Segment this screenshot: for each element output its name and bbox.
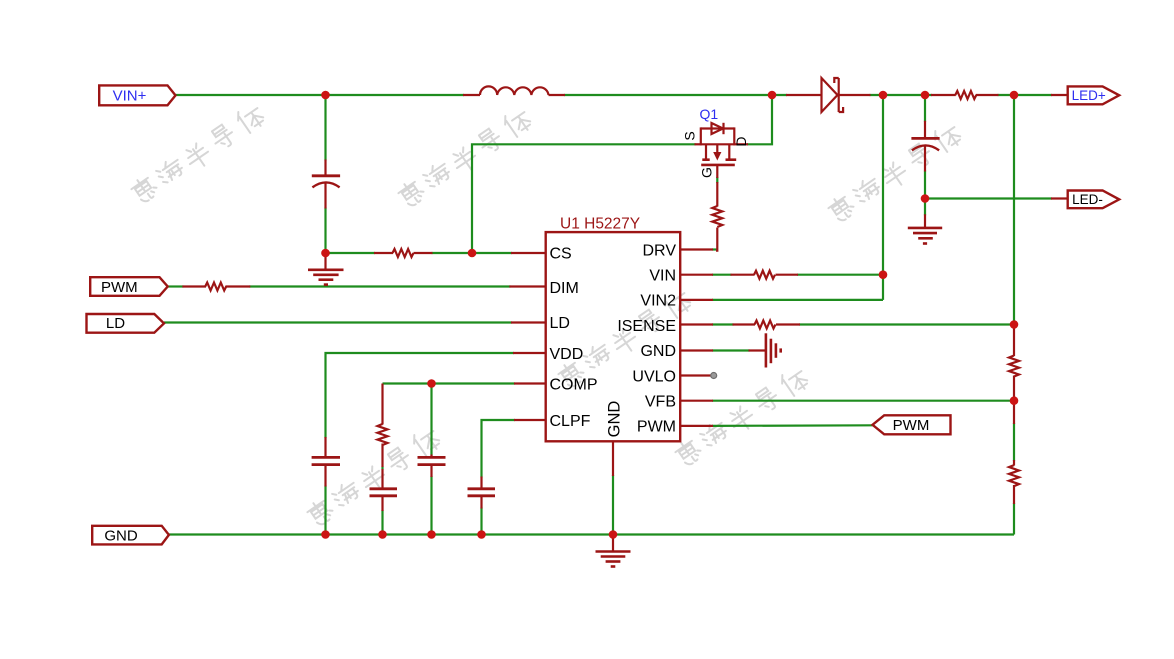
node junction C2 top — [921, 91, 930, 100]
wire inductor leads — [463, 94, 480, 96]
watermark 2 — [396, 105, 534, 211]
node junction diode cathode — [879, 91, 888, 100]
wire C1 bottom branch — [324, 208, 326, 254]
svg-text:VDD: VDD — [550, 346, 584, 363]
wire COMP branchA upper lead — [381, 384, 383, 425]
capacitor C3 VDD — [312, 457, 340, 464]
wire IC GND pin to bus — [612, 475, 614, 535]
resistor R5 VIN — [754, 271, 775, 279]
wire VDD cap bottom lead — [324, 465, 326, 487]
wire top resistor leads — [931, 94, 956, 96]
wire Q1 gate lead upper — [716, 165, 718, 178]
wire right column x1014 upper — [1013, 95, 1015, 325]
svg-text:VIN: VIN — [649, 268, 676, 285]
wire VDD pin red stub — [513, 352, 546, 354]
wire DRV green dash — [712, 248, 717, 250]
wire GND pin green — [712, 349, 750, 351]
wire right column red leads — [1013, 325, 1015, 357]
watermark 4 — [305, 424, 443, 530]
wire VIN+ rail left — [176, 94, 465, 96]
wire CLPF pin red stub — [514, 419, 546, 421]
node PWM flag right — [873, 415, 951, 434]
wire Q1 gate lead lower — [716, 182, 718, 207]
svg-text:G: G — [699, 167, 715, 178]
wire C1 top branch — [324, 95, 326, 161]
ground G1 — [308, 252, 344, 285]
wire VIN pin red stub — [680, 274, 713, 276]
node VIN+ flag — [99, 85, 175, 105]
wire node CS left — [326, 252, 376, 254]
wire ISENSE green left — [712, 323, 734, 325]
wire PWM pin red stub — [680, 425, 713, 427]
op-amp U1 H5227Y body — [546, 216, 681, 442]
svg-text:S: S — [682, 131, 698, 140]
svg-text:LED+: LED+ — [1072, 88, 1106, 103]
wire GND pin to ground — [749, 349, 766, 351]
svg-text:LD: LD — [550, 315, 570, 332]
wire LED- flag stub — [1051, 197, 1068, 199]
node junction LED+ column — [1010, 91, 1019, 100]
node UVLO no-connect dot — [711, 373, 717, 379]
wire VIN2 pin red stub — [680, 299, 713, 301]
watermark 6 — [673, 364, 811, 470]
resistor R8 lower right (vertical) — [1009, 465, 1019, 486]
resistor R7 upper right (vertical) — [1009, 356, 1019, 377]
svg-text:DRV: DRV — [643, 242, 677, 259]
svg-text:ISENSE: ISENSE — [617, 318, 676, 335]
node LD flag — [87, 314, 165, 333]
wire VIN pin green — [712, 274, 732, 276]
inductor L1 — [480, 86, 548, 95]
svg-text:GND: GND — [606, 401, 624, 438]
wire VIN resistor right lead — [776, 274, 799, 276]
ground G4 rotated — [766, 333, 781, 367]
wire VFB run — [712, 400, 1014, 402]
wire CLPF cap to bus — [480, 508, 482, 535]
wire VFB pin red stub — [680, 400, 713, 402]
wire COMP branchA mid lead — [381, 444, 383, 468]
node junction LED- — [921, 194, 930, 203]
wire node CS right — [432, 252, 473, 254]
watermark 3 — [826, 120, 964, 226]
wire ISENSE pin red stub — [680, 323, 713, 325]
svg-text:D: D — [733, 136, 749, 146]
wire PWM flag stub — [168, 285, 184, 287]
resistor R1 top — [955, 91, 976, 99]
watermark 1 — [129, 101, 267, 207]
wire LD pin red stub — [511, 321, 546, 323]
resistor R2 CS — [393, 249, 414, 257]
node junction VFB — [1010, 396, 1019, 405]
wire COMP cap branch — [430, 384, 432, 456]
wire Q1 source red stub — [695, 143, 701, 145]
ground G3 — [596, 534, 631, 567]
wire VIN+ rail mid — [564, 94, 787, 96]
wire VIN resistor left lead — [731, 274, 755, 276]
wire UVLO pin stub — [680, 374, 711, 376]
capacitor C6 CLPF — [468, 489, 496, 496]
svg-text:PWM: PWM — [101, 279, 138, 296]
wire VIN+ rail right of diode — [870, 94, 933, 96]
wire Q1 gate green dash — [716, 177, 718, 183]
node junction ISENSE — [1010, 320, 1019, 329]
wire LD run — [164, 321, 512, 323]
node GND flag — [92, 526, 169, 545]
capacitor C4 COMP branchB — [418, 457, 446, 464]
wire C2 top red lead — [924, 121, 926, 139]
wire IC GND bottom stub — [612, 441, 614, 476]
svg-text:VIN2: VIN2 — [640, 293, 676, 310]
wire COMP cap to bus — [430, 476, 432, 535]
svg-text:COMP: COMP — [550, 376, 598, 393]
wire ISENSE run right — [799, 323, 1014, 325]
wire PWM pin run — [712, 424, 873, 427]
node LED+ flag — [1068, 86, 1120, 104]
capacitor C2 — [911, 138, 939, 150]
wire LED- ground stub — [924, 199, 926, 216]
wire LED- run — [925, 197, 1052, 199]
wire COMP RC green dash — [381, 467, 383, 470]
svg-text:DIM: DIM — [550, 280, 579, 297]
svg-text:CLPF: CLPF — [550, 413, 591, 430]
wire PWM resistor leads — [182, 285, 206, 287]
svg-text:GND: GND — [640, 343, 676, 360]
wire right column lower — [1013, 503, 1015, 535]
wire COMP branchA cap lead — [381, 469, 383, 489]
wire ISENSE resistor leads — [733, 323, 756, 325]
wire VDD run — [326, 353, 515, 438]
node junction C1 bottom — [321, 249, 330, 258]
node junction bus RC — [378, 530, 387, 539]
wire LED- gnd red stub — [924, 214, 926, 228]
ground G2 — [908, 228, 942, 244]
svg-text:VFB: VFB — [645, 394, 676, 411]
node junction CS — [468, 249, 477, 258]
wire C2 bottom red lead — [924, 145, 926, 172]
wire C1 bottom red lead — [324, 182, 326, 208]
svg-text:U1 H5227Y: U1 H5227Y — [560, 216, 640, 233]
transistor Q1 — [701, 123, 736, 165]
wire C2 bottom — [924, 171, 926, 199]
wire COMP branchB bottom lead — [430, 465, 432, 477]
wire VDD cap to bus — [324, 486, 326, 535]
node junction VIN+/C1 — [321, 91, 330, 100]
wire COMP RC to bus — [381, 510, 383, 535]
svg-text:LD: LD — [106, 315, 125, 332]
wire DRV riser — [716, 228, 717, 251]
wire CS resistor leads — [374, 252, 393, 254]
wire LED+ flag stub — [1051, 94, 1068, 96]
capacitor C5 COMP branchA — [370, 489, 398, 496]
wire GND bus — [169, 533, 1014, 535]
wire LED+ rail — [998, 94, 1053, 96]
node PWM flag left — [90, 277, 168, 296]
svg-text:VIN+: VIN+ — [113, 87, 147, 104]
svg-text:PWM: PWM — [637, 419, 676, 436]
wire diode cathode riser x883 — [882, 95, 884, 300]
svg-text:UVLO: UVLO — [632, 368, 676, 385]
wire CS pin stub — [472, 252, 512, 254]
wire right column between resistors — [1013, 423, 1015, 461]
wire CS pin red stub — [511, 252, 546, 254]
wire DIM pin red stub — [509, 285, 545, 287]
wire CLPF cap bottom lead — [480, 496, 482, 509]
resistor R6 ISENSE — [755, 321, 776, 329]
wire C2 top — [924, 95, 926, 122]
wire VDD cap top lead — [324, 437, 326, 457]
wire GND pin red stub — [680, 349, 713, 351]
resistor R4 DRV (vertical) — [712, 206, 722, 227]
node junction bus IC GND — [609, 530, 618, 539]
svg-text:PWM: PWM — [893, 417, 930, 434]
wire CLPF run — [482, 420, 516, 478]
capacitor C1 — [312, 176, 340, 188]
resistor R9 COMP (vertical) — [378, 424, 388, 445]
node junction Q1 drain — [768, 91, 777, 100]
wire DRV pin stub — [680, 248, 713, 250]
svg-text:GND: GND — [104, 528, 138, 545]
wire VIN2 run — [712, 299, 883, 301]
diode D1 schottky — [822, 78, 844, 112]
svg-text:LED-: LED- — [1072, 192, 1103, 207]
svg-text:Q1: Q1 — [700, 106, 719, 122]
wire COMP run — [383, 382, 516, 384]
watermark 5 — [556, 286, 694, 392]
wire Q1 drain red stub — [734, 143, 748, 145]
wire DIM run — [249, 285, 510, 287]
wire CS riser to Q1 source — [472, 144, 696, 253]
wire Q1 drain to rail — [747, 95, 772, 144]
node junction COMP — [427, 379, 436, 388]
wire VIN to riser — [797, 274, 883, 276]
wire COMP branchA bottom lead — [381, 496, 383, 511]
svg-text:CS: CS — [550, 245, 572, 262]
wire C1 top red lead — [324, 160, 326, 176]
wire COMP branchB top lead — [430, 455, 432, 458]
node LED- flag — [1068, 191, 1120, 209]
resistor R3 PWM — [205, 283, 226, 291]
wire diode leads — [786, 94, 822, 96]
node junction bus C6 — [477, 530, 486, 539]
node junction VIN — [879, 270, 888, 279]
node junction bus C3 — [321, 530, 330, 539]
wire CLPF cap top lead — [480, 477, 482, 489]
wire COMP pin red stub — [514, 382, 546, 384]
node junction bus C4 — [427, 530, 436, 539]
